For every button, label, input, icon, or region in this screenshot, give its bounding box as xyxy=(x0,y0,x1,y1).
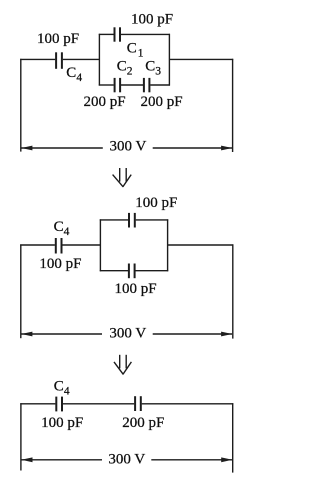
capacitor bottom 100 pF plates circuit2 xyxy=(129,264,135,279)
wire: box2 top edge (gap for top capacitor) xyxy=(100,219,128,221)
capacitor C4 (100 pF) plates xyxy=(56,52,62,69)
svg-text:100 pF: 100 pF xyxy=(114,281,156,297)
arrowhead left circuit1 xyxy=(21,146,32,151)
wire: box2 to right vertical xyxy=(168,244,234,246)
svg-text:100 pF: 100 pF xyxy=(39,256,81,272)
arrowhead right circuit3 xyxy=(221,457,232,462)
wire: box top edge (gap for C1) xyxy=(99,33,114,35)
svg-text:200 pF: 200 pF xyxy=(141,94,183,110)
svg-text:300 V: 300 V xyxy=(108,452,145,468)
wire: circuit3 left vertical xyxy=(20,403,22,470)
svg-text:100 pF: 100 pF xyxy=(37,31,79,47)
wire: box2 left edge xyxy=(99,219,101,271)
wire: box bottom edge (gaps for C2 and C3) xyxy=(99,84,114,86)
capacitor C4 (100 pF) plates circuit3 xyxy=(56,397,62,412)
wire: circuit1 left vertical xyxy=(20,59,22,152)
dimension line 300 V circuit1 (right segment) xyxy=(153,147,232,149)
svg-text:300 V: 300 V xyxy=(109,139,146,155)
dimension line 300 V circuit2 (left segment) xyxy=(21,333,102,335)
wire: circuit2 top-left horizontal to C4 xyxy=(20,244,55,246)
capacitor 200 pF plates circuit3 xyxy=(135,396,141,411)
wire: circuit1 top-left horizontal to C4 xyxy=(20,58,55,60)
wire: C4 to 200 pF capacitor circuit3 xyxy=(63,403,134,405)
dimension line 300 V circuit2 (right segment) xyxy=(153,333,232,335)
svg-text:300 V: 300 V xyxy=(109,326,146,342)
svg-text:100 pF: 100 pF xyxy=(135,195,177,211)
capacitor C1 (100 pF) plates xyxy=(115,27,121,41)
svg-text:100 pF: 100 pF xyxy=(41,415,83,431)
wire: box right edge xyxy=(168,34,170,86)
arrowhead right circuit2 xyxy=(221,332,232,337)
dimension line 300 V circuit3 (right segment) xyxy=(151,459,232,461)
capacitor top 100 pF plates circuit2 xyxy=(129,213,135,228)
wire: box2 bottom edge (gap for bottom capacitor) xyxy=(100,270,128,272)
svg-text:100 pF: 100 pF xyxy=(131,12,173,28)
wire: circuit3 top-left horizontal to C4 xyxy=(20,403,55,405)
wire: box to right vertical xyxy=(169,58,233,60)
wire: box left edge xyxy=(98,34,100,86)
dimension line 300 V circuit1 (left segment) xyxy=(21,147,102,149)
capacitor C4 (100 pF) plates circuit2 xyxy=(56,238,62,254)
svg-text:200 pF: 200 pF xyxy=(122,415,164,431)
dimension line 300 V circuit3 (left segment) xyxy=(22,459,103,461)
wire: C4 to parallel box xyxy=(63,58,100,60)
arrowhead left circuit3 xyxy=(21,457,32,462)
wire: box2 right edge xyxy=(167,219,169,271)
wire: circuit2 left vertical xyxy=(20,244,22,338)
arrowhead left circuit2 xyxy=(21,332,32,337)
wire: C4 to parallel box circuit2 xyxy=(62,244,100,246)
svg-text:200 pF: 200 pF xyxy=(83,94,125,110)
arrowhead right circuit1 xyxy=(221,146,232,151)
capacitor C2 (200 pF) plates xyxy=(115,78,121,92)
wire: 200 pF capacitor to right vertical circuit3 xyxy=(142,403,234,405)
wire: circuit1 right vertical xyxy=(232,59,234,152)
capacitor C3 (200 pF) plates xyxy=(144,78,150,92)
wire: circuit3 right vertical xyxy=(232,403,234,472)
wire: circuit2 right vertical xyxy=(232,244,234,338)
